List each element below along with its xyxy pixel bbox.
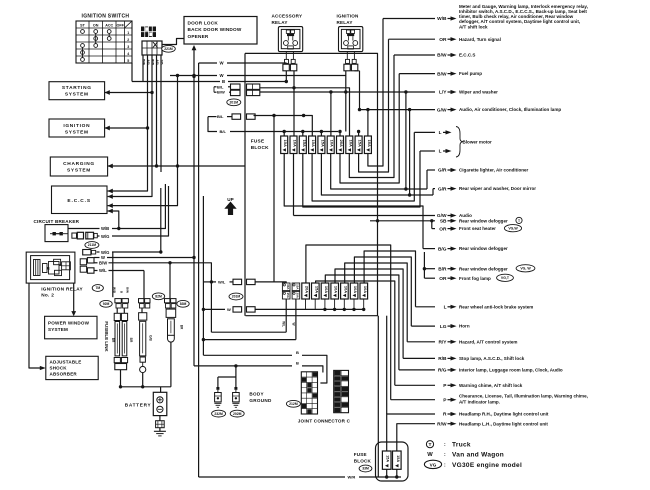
svg-text:B/R: B/R (438, 266, 447, 272)
svg-text:BLOCK: BLOCK (251, 145, 269, 150)
svg-text:W/L: W/L (281, 321, 285, 327)
connector ref 221M (162, 45, 176, 52)
svg-text:VG: VG (430, 462, 437, 467)
svg-text:UP: UP (227, 197, 233, 202)
ground symbol left (214, 403, 221, 407)
svg-text:R/G: R/G (438, 368, 447, 374)
wire charging system feed (108, 165, 245, 167)
wire W/L vertical below slot1 (281, 299, 286, 332)
svg-text:E: E (47, 266, 50, 271)
connector ref 211M (85, 242, 99, 249)
svg-text:15A: 15A (358, 140, 363, 147)
wire 83M to fusible link 3 (169, 308, 171, 309)
wire B/L branch vertical (272, 114, 305, 282)
destination L from fuse row2 (364, 251, 533, 311)
svg-text:33M: 33M (362, 467, 369, 471)
svg-text:10A: 10A (367, 140, 372, 147)
wire W bus under fuse row2 (203, 307, 364, 312)
destination G/W audio clock (321, 107, 561, 197)
battery ground connector (156, 421, 165, 428)
connector ref 83M (177, 300, 189, 307)
legend VG30E symbol (424, 460, 522, 469)
relay ACCESSORY icon (278, 27, 302, 52)
svg-text:20A: 20A (339, 140, 344, 147)
svg-text:R/W: R/W (437, 421, 447, 427)
wire FL1 to battery bus (120, 370, 122, 387)
svg-text:SYSTEM: SYSTEM (67, 168, 91, 174)
svg-text:W: W (101, 255, 105, 260)
svg-text:OPENER: OPENER (188, 34, 209, 39)
svg-text:20A: 20A (296, 293, 300, 299)
svg-text:Hazard, A/T control system: Hazard, A/T control system (459, 339, 517, 344)
fuse block outline (245, 53, 378, 315)
svg-text:82M: 82M (155, 295, 162, 299)
fuse row2 F2-7 10A (341, 283, 349, 299)
svg-text:W/R: W/R (348, 475, 356, 480)
destination R/W headlamp LH (397, 421, 549, 451)
ignition switch pin wire labels (142, 59, 164, 66)
svg-text:W: W (291, 322, 295, 325)
svg-text:CHARGING: CHARGING (63, 161, 95, 167)
svg-text:GROUND: GROUND (249, 398, 272, 403)
connector on relay right (W/G) (83, 250, 96, 255)
svg-text:BLOCK: BLOCK (354, 459, 372, 464)
destination G/W audio (294, 213, 473, 219)
svg-text:W/B: W/B (101, 226, 109, 231)
wire ignition switch pin 3 (W/B) to E.C.C.S (108, 55, 152, 197)
relay No.2 pin labels (113, 287, 130, 294)
body ground label (249, 392, 272, 404)
svg-text:Hazard, Turn signal: Hazard, Turn signal (459, 37, 501, 42)
svg-text:BODY: BODY (249, 392, 263, 397)
wire B/L feeder to fuse bus (208, 117, 338, 135)
svg-text:15A: 15A (320, 140, 325, 147)
box IGNITION SYSTEM (49, 119, 105, 137)
svg-text:IGNITION: IGNITION (63, 123, 90, 129)
wire ignition switch pin 2 (A/B) to E.C.C.S (108, 55, 148, 191)
svg-text:10A: 10A (353, 286, 358, 293)
svg-text:Front seat heater: Front seat heater (459, 226, 496, 231)
wire long left feeder to W/R (198, 63, 200, 477)
svg-text:VG, W: VG, W (520, 267, 531, 271)
fuse row2 F2-8 10A (350, 283, 358, 299)
svg-text:30A: 30A (286, 284, 290, 290)
svg-text:CIRCUIT BREAKER: CIRCUIT BREAKER (34, 219, 80, 224)
fusible link FL1 labels BR BR (111, 338, 133, 343)
svg-text:Blower motor: Blower motor (463, 139, 493, 144)
wire ignition system feed (105, 127, 148, 129)
svg-text:G/R: G/R (438, 186, 447, 192)
wire W/G from ignition relay No.2 (97, 188, 163, 255)
svg-text:10A: 10A (334, 286, 339, 293)
connector ref 212M (286, 400, 300, 407)
wire accessory relay pin left (285, 71, 287, 82)
svg-text:R/Y: R/Y (439, 340, 448, 346)
svg-text:STARTING: STARTING (62, 85, 92, 91)
relay IGNITION RELAY No.2 (26, 252, 75, 283)
svg-text:No. 2: No. 2 (41, 293, 54, 298)
svg-text:15A: 15A (296, 284, 300, 290)
connector ref 201M (227, 99, 241, 106)
connector ref 201M lower (229, 293, 243, 300)
joint connector C grid 2 (334, 370, 349, 412)
destination P from fuse row2 (316, 281, 523, 389)
wire relay No.2 to shock absorber (29, 283, 41, 368)
wire accessory relay pin right to fuse 2 (293, 71, 295, 136)
fusible link FL1 (BR) pair (114, 313, 127, 369)
destination R/G from fuse row2 (325, 275, 563, 374)
wire body ground branch (216, 366, 237, 393)
feeder stub fuse 6 top (330, 92, 332, 136)
svg-text:LG: LG (440, 324, 447, 330)
svg-text:1: 1 (127, 31, 129, 35)
fuse row2 F2-9 10A (360, 283, 368, 299)
fuse row1 F1-3 15A (299, 136, 306, 154)
svg-text:W/L: W/L (99, 268, 107, 273)
svg-text:R/B: R/B (438, 356, 447, 362)
wire ignition switch pin 4 (A/B) (155, 55, 158, 168)
svg-text:IGNITION SWITCH: IGNITION SWITCH (82, 14, 130, 20)
battery BAT1 (153, 392, 167, 415)
svg-text:ADJUSTABLE: ADJUSTABLE (50, 359, 82, 364)
fuse F-RW 15A (393, 451, 402, 469)
wire ignition switch pin 1 (B/W) to B feeder (142, 55, 144, 82)
joint connector C grid 1 (301, 372, 317, 414)
fuse row1 F1-6 10A (327, 136, 334, 154)
svg-text:IGNITION: IGNITION (337, 14, 359, 19)
wire fuse 2 to G/W audio line (293, 154, 295, 216)
destination L blower motor 2 (303, 149, 452, 207)
svg-text:RELAY: RELAY (337, 20, 353, 25)
box CHARGING SYSTEM (50, 157, 107, 176)
connector 83M (165, 299, 177, 308)
svg-text:BR: BR (111, 338, 115, 343)
svg-text:L/Y: L/Y (439, 90, 447, 96)
svg-text:Fuel pump: Fuel pump (459, 71, 482, 76)
destination LG from fuse row2 (354, 257, 469, 330)
svg-text:BR: BR (180, 325, 184, 330)
destination B/R rear window defogger VG W (423, 252, 535, 278)
svg-text:Cigarette lighter, Air conditi: Cigarette lighter, Air conditioner (459, 168, 529, 173)
svg-text:B/W: B/W (126, 287, 130, 293)
ignition switch connector (black grid) (141, 27, 156, 38)
wires 92M to fusible link 1 (117, 308, 124, 313)
fuse row2 slot1 mini fuses (282, 283, 290, 299)
relay IGNITION label (337, 14, 359, 25)
wire W from relay No.2 (94, 255, 196, 260)
feeder stubs fuse row1 tops (B/L bus) (283, 130, 361, 136)
svg-text:SHOCK: SHOCK (50, 365, 68, 370)
destination OR front fog lamp (424, 274, 513, 282)
connector ref 82M (152, 293, 164, 300)
connector 201M left half (231, 84, 241, 96)
svg-text:B/G: B/G (438, 246, 447, 252)
svg-text:Rear window defogger: Rear window defogger (459, 266, 508, 271)
fuse row2 F2-3 20A (302, 283, 310, 299)
svg-text:DOOR LOCK: DOOR LOCK (188, 20, 219, 25)
svg-text:B: B (296, 361, 299, 366)
destination B/G rear window defogger (284, 154, 508, 253)
wire from connector 221M to door lock feed (162, 39, 184, 45)
svg-text:211M: 211M (88, 243, 96, 247)
destination W/B meter and gauge (368, 4, 588, 166)
svg-text:Audio, Air conditioner, Clock,: Audio, Air conditioner, Clock, Illuminat… (459, 107, 561, 112)
svg-text:15A: 15A (302, 140, 307, 147)
svg-text:FUSIBLE LINK: FUSIBLE LINK (104, 321, 109, 352)
ignition relay connector (344, 52, 358, 71)
wire W feeder 2 (108, 73, 346, 205)
svg-text:5: 5 (127, 59, 129, 63)
svg-text:10A: 10A (293, 140, 298, 147)
svg-text:Headlamp L.H., Daytime light c: Headlamp L.H., Daytime light control uni… (459, 421, 548, 426)
svg-text:15A: 15A (396, 455, 400, 462)
svg-text:201M: 201M (232, 295, 241, 299)
wire W lower return (202, 338, 296, 341)
svg-text:Front fog lamp: Front fog lamp (459, 276, 491, 281)
svg-text:Wiper and washer: Wiper and washer (459, 90, 498, 95)
svg-text:15A: 15A (283, 140, 288, 147)
legend van and wagon symbol (427, 452, 504, 459)
svg-text:B/W: B/W (437, 71, 447, 77)
svg-text:221M: 221M (164, 47, 173, 51)
box POWER WINDOW SYSTEM (45, 316, 97, 339)
svg-text:G/W: G/W (437, 213, 447, 219)
svg-text:202M: 202M (233, 412, 242, 416)
wire 82M to fusible link 2 (141, 308, 143, 313)
fuse row1 F1-9 15A (355, 136, 362, 154)
wire E.C.C.S to W/B circuit breaker line (108, 211, 121, 230)
svg-text:15A: 15A (386, 455, 390, 462)
fuse row1 F1-1 15A (281, 136, 288, 154)
relay ref 7M (92, 285, 103, 292)
destination B/W fuel pump (340, 71, 482, 183)
wire feed to door lock box (192, 45, 197, 366)
connector 201M right half (fuse block edge) (247, 84, 260, 96)
destination G/R rear wiper (433, 186, 536, 195)
feeder stub fuse 10 top (367, 110, 369, 136)
svg-text:G/B: G/B (149, 335, 153, 341)
wire fuse block edge down to W/R (377, 316, 379, 477)
wire W/L lower return (211, 331, 286, 333)
svg-text:B/L: B/L (220, 129, 227, 134)
svg-text:7M: 7M (95, 286, 100, 290)
connector at circuit breaker (72, 232, 97, 239)
feeder stub fuse 8 top (260, 88, 350, 136)
body ground sensor right (233, 393, 240, 402)
destination R/Y from fuse row2 (345, 263, 518, 346)
svg-text:W/B: W/B (113, 287, 117, 294)
connector ref 232M (212, 410, 226, 417)
wire B/W label to connector 201M (214, 87, 231, 95)
box E.C.C.S (52, 186, 108, 214)
svg-text:OR: OR (439, 226, 447, 232)
svg-text:E.C.C.S: E.C.C.S (459, 53, 475, 58)
legend truck symbol (426, 441, 471, 449)
svg-text:Audio: Audio (459, 213, 472, 218)
fuse row1 F1-10 10A (364, 136, 371, 154)
svg-text:E.C.C.S: E.C.C.S (67, 198, 91, 204)
svg-text:Rear wiper and washer, Door mi: Rear wiper and washer, Door mirror (459, 186, 536, 191)
svg-text:B/W: B/W (99, 261, 107, 266)
svg-text:10A: 10A (324, 286, 329, 293)
svg-text:212M: 212M (289, 402, 298, 406)
arrows into E.C.C.S (108, 189, 113, 214)
svg-text:IGNITION RELAY: IGNITION RELAY (41, 286, 83, 291)
UP arrow (224, 197, 236, 215)
wire to 92M connector (112, 252, 114, 297)
wire B/L label to connector 201M (214, 84, 231, 89)
relay IGNITION icon (339, 27, 363, 52)
wire ignition switch pin 5 (T/B) (160, 55, 162, 172)
fuse row1 F1-8 10A (346, 136, 353, 154)
svg-text:FUSE: FUSE (251, 139, 265, 144)
wire W/R battery feed (199, 469, 401, 479)
wire B to joint connector 2 (194, 361, 323, 373)
fusible link FL2 (G/B) (139, 313, 147, 373)
wire W/G from circuit breaker (97, 186, 168, 239)
connector ref 202M (230, 410, 244, 417)
svg-text:L: L (439, 149, 442, 155)
wire W vertical below slot2 (291, 299, 296, 340)
svg-text:B/L: B/L (217, 114, 224, 119)
fusible link FL3 (BR) (166, 309, 176, 342)
connector 82M (139, 299, 151, 308)
svg-text:VG30E engine model: VG30E engine model (452, 462, 522, 469)
svg-text:20A: 20A (305, 286, 310, 293)
circuit breaker CB1 (45, 225, 68, 242)
wire B to joint connector 1 (203, 350, 327, 383)
svg-text:15A: 15A (314, 286, 319, 293)
svg-text:R: R (443, 412, 447, 418)
box ADJUSTABLE SHOCK ABSORBER (46, 356, 98, 379)
svg-text:SB: SB (440, 219, 447, 225)
svg-text:ABSORBER: ABSORBER (50, 371, 78, 376)
connector ref 33M (359, 465, 372, 472)
svg-text:RELAY: RELAY (272, 20, 288, 25)
svg-text:FUSE: FUSE (354, 452, 367, 457)
ignition relay No.2 label (41, 286, 83, 297)
destination L blower motor 1 (312, 130, 451, 201)
wire B/W from relay No.2 (94, 261, 213, 333)
wire W/L from relay No.2 (94, 268, 144, 273)
box DOOR LOCK BACK DOOR WINDOW OPENER (184, 17, 257, 45)
svg-text:W/B: W/B (437, 16, 447, 22)
wire battery negative to ground (159, 416, 161, 421)
wire FL3 down to battery bus (170, 342, 172, 387)
small fuse block label (354, 452, 372, 464)
svg-text:JOINT CONNECTOR C: JOINT CONNECTOR C (298, 418, 351, 423)
svg-text:POWER WINDOW: POWER WINDOW (48, 321, 90, 326)
fuse row2 F2-6 10A (331, 283, 339, 299)
svg-text:B/W: B/W (437, 53, 447, 59)
feeder stub fuse 4 top (254, 116, 313, 137)
svg-text:ACC: ACC (105, 24, 113, 28)
svg-text:OFF: OFF (117, 24, 125, 28)
ground symbol below battery (154, 428, 166, 436)
wire starting system feed (105, 92, 152, 94)
svg-text:G/W: G/W (437, 107, 447, 113)
destination B/W ECCS (349, 53, 475, 178)
svg-text:10A: 10A (348, 140, 353, 147)
svg-text:BATTERY: BATTERY (125, 402, 152, 407)
svg-text:3: 3 (127, 45, 129, 49)
connector ref 92M (100, 300, 112, 307)
ignition switch contact table (76, 21, 132, 63)
svg-text:SYSTEM: SYSTEM (65, 92, 89, 98)
box STARTING SYSTEM (49, 82, 105, 100)
battery positive bus (119, 385, 171, 392)
svg-text:15A: 15A (286, 293, 290, 299)
destination P from fuse row2 (306, 245, 457, 403)
svg-text:B/L: B/L (217, 84, 224, 89)
svg-text:ACCESSORY: ACCESSORY (272, 14, 303, 19)
destination R headlamp RH (387, 316, 549, 451)
connector 92M (115, 299, 128, 308)
connector on relay right (W B/W W/L) (80, 258, 94, 274)
svg-text:OR: OR (439, 37, 447, 43)
wire B feeder (132, 63, 286, 84)
fuse block label (251, 139, 269, 151)
svg-text:Headlamp R.H., Daytime light c: Headlamp R.H., Daytime light control uni… (459, 412, 549, 417)
fuse row2 F2-5 10A (321, 283, 329, 299)
wire ignition relay pin right (359, 71, 361, 110)
wire to 82M connector (143, 271, 145, 299)
destination OR front seat heater (432, 221, 522, 233)
fuse row1 F1-2 10A (290, 136, 297, 154)
fuse row1 F1-4 15A (309, 136, 316, 154)
svg-text:SYSTEM: SYSTEM (48, 327, 68, 332)
svg-text:VG,W: VG,W (508, 226, 518, 230)
svg-text:L: L (439, 130, 442, 136)
svg-text:Rear window defogger: Rear window defogger (459, 246, 508, 251)
wire common vertical 203 (202, 196, 205, 355)
svg-text:4: 4 (127, 52, 129, 56)
small fuse block outline (376, 442, 409, 481)
destination G/R cigarette lighter (427, 168, 529, 189)
svg-text:BR: BR (129, 338, 133, 343)
svg-text:BACK DOOR WINDOW: BACK DOOR WINDOW (188, 27, 242, 32)
svg-text:W: W (227, 307, 231, 312)
svg-text:Rear window defogger: Rear window defogger (459, 218, 508, 223)
relay ACCESSORY label (272, 14, 303, 25)
svg-text:VG,T: VG,T (501, 276, 510, 280)
svg-text:W: W (427, 452, 433, 458)
svg-text:ON: ON (93, 24, 99, 28)
svg-text:83M: 83M (180, 302, 187, 306)
svg-text:B: B (296, 350, 299, 355)
svg-text:Horn: Horn (459, 324, 470, 329)
svg-text:SYSTEM: SYSTEM (65, 130, 89, 136)
svg-text:ST: ST (80, 24, 85, 28)
fuse row1 F1-7 20A (337, 136, 344, 154)
svg-text:Warning chime, A/T shift lock: Warning chime, A/T shift lock (459, 383, 523, 388)
svg-text:Truck: Truck (452, 442, 471, 449)
svg-text:Rear wheel anti-lock brake sys: Rear wheel anti-lock brake system (459, 304, 533, 309)
destination SB rear window defogger (370, 217, 522, 224)
svg-text:G/R: G/R (438, 168, 447, 174)
destination R/B from fuse row2 (335, 269, 525, 362)
destination OR hazard turn signal (359, 37, 501, 172)
accessory relay connector (283, 52, 297, 71)
svg-text:L: L (444, 305, 447, 311)
body ground sensor left (215, 393, 222, 402)
stubs fuse row2 bottoms to bus (306, 299, 366, 311)
svg-text:T: T (429, 442, 432, 448)
fuse row2 F2-4 15A (312, 283, 320, 299)
wire relay No.2 to power window system (73, 283, 75, 311)
svg-text:15A: 15A (311, 140, 316, 147)
wire W/B from circuit breaker (68, 184, 165, 231)
